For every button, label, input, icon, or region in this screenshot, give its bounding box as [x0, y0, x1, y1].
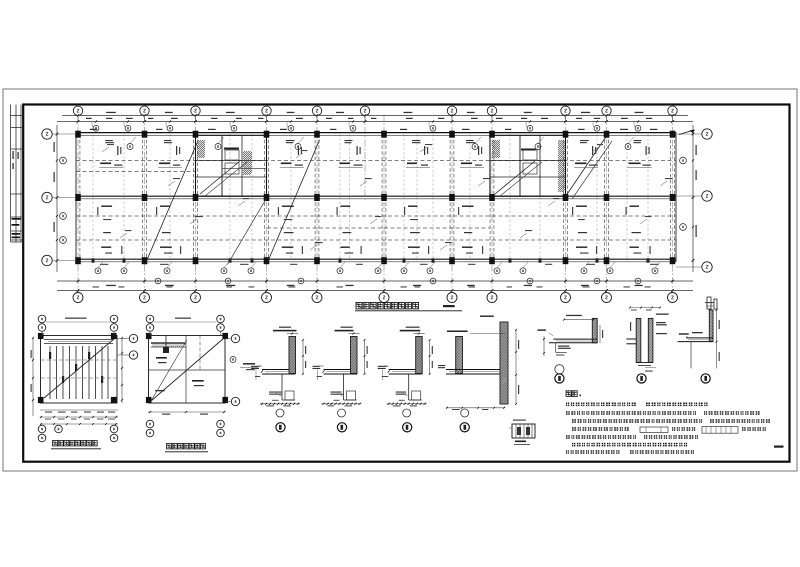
- section detail ref circles 341.5: [337, 409, 346, 432]
- north-east arrow mark: [679, 130, 695, 135]
- section detail step 280: [269, 374, 295, 400]
- left sub row bubbles: [60, 157, 67, 243]
- roof plan right bubbles: [226, 334, 258, 405]
- stair core A flight diagonals: [200, 161, 247, 196]
- tank plan diagonal: [44, 339, 114, 398]
- notes line 6: [572, 443, 687, 447]
- section detail wall 341.5: [335, 327, 360, 374]
- tank plan bottom bubbles: [38, 425, 118, 442]
- section detail 13 ref circle: [637, 374, 646, 383]
- row F top beam: [76, 132, 676, 134]
- signature strip left line: [10, 105, 12, 243]
- right row bubbles: [676, 129, 712, 272]
- stair diagonal right bay upper second: [572, 141, 612, 199]
- section detail slab 406.7: [378, 366, 423, 380]
- section detail dims 406.7: [387, 339, 433, 406]
- section detail 14 ref circle: [701, 374, 710, 383]
- sub-row dashed beams: [76, 161, 676, 241]
- section detail 15 ref circles: [555, 365, 564, 383]
- roof plan corner columns: [146, 333, 228, 403]
- section detail slab 280: [251, 366, 296, 380]
- level label 6.630 core B: [521, 149, 536, 151]
- notes line 1: [566, 402, 708, 406]
- main plan title: [355, 303, 462, 311]
- roof plan outline: [149, 336, 226, 404]
- top grid bubbles: [73, 106, 677, 121]
- under-beam dimension strings row D: [100, 264, 659, 265]
- row E middle beam: [76, 195, 676, 197]
- notes line 2: [566, 411, 760, 415]
- notes line 3: [572, 419, 770, 423]
- section detail step 341.5: [331, 374, 357, 400]
- roof plan partitions: [149, 336, 226, 404]
- section detail 13 channel: [626, 307, 668, 372]
- right dimension line: [692, 125, 694, 272]
- section detail 12 double wall: [438, 316, 519, 411]
- tank plan left dimension: [31, 337, 35, 416]
- tank plan top slab band: [44, 340, 113, 344]
- stair core B flight diagonals: [495, 161, 542, 196]
- annotations along row F above: [90, 129, 657, 130]
- right dimension figures: [696, 145, 697, 237]
- bottom grid bubbles: [73, 291, 678, 303]
- signature strip right line: [20, 105, 22, 243]
- roof plan second diagonal: [151, 340, 187, 401]
- roof plan labels: [155, 357, 204, 391]
- bottom dimension figures: [93, 285, 651, 288]
- beam annotations middle band: [97, 206, 641, 234]
- stair core A hatching: [197, 140, 252, 175]
- signature strip mid line: [15, 105, 17, 243]
- right sub row bubbles: [680, 157, 687, 230]
- stair long diagonal 3: [228, 199, 267, 265]
- column squares row E: [75, 194, 675, 201]
- plan side edges: [75, 133, 77, 262]
- sheet inner heavy border: [23, 105, 789, 462]
- left dimension figures: [54, 142, 55, 232]
- stair diagonal right bay upper: [566, 136, 607, 197]
- section detail wall 406.7: [400, 327, 425, 374]
- tank plan cross beams: [41, 360, 116, 378]
- signature strip cell text: [12, 151, 22, 238]
- column-line beam edges: [76, 134, 674, 261]
- section detail dims 280: [260, 339, 306, 406]
- bottom sub grid bubbles: [155, 278, 641, 284]
- stair long diagonal 1: [145, 143, 197, 265]
- secondary column dashed lines: [93, 134, 648, 261]
- tank plan corner columns: [38, 333, 117, 403]
- section detail slab 341.5: [313, 366, 358, 380]
- left row bubbles F E D: [42, 129, 76, 266]
- section detail 12 ref circles: [460, 409, 469, 432]
- scattered leader marks: [102, 144, 672, 250]
- stair core A partitions: [196, 135, 267, 196]
- bottom dimension line upper: [57, 280, 693, 282]
- beam annotations lower band: [101, 246, 651, 254]
- door symbol right of plan: [707, 297, 717, 309]
- top dimension line: [57, 121, 693, 123]
- roof plan bottom bubbles: [146, 420, 224, 437]
- roof plan top bubbles: [146, 315, 224, 335]
- section detail wall 280: [273, 327, 298, 374]
- roof plan main diagonal: [151, 338, 224, 401]
- top dimension figures: [86, 112, 652, 119]
- roof plan caption: [165, 444, 208, 452]
- stair core B hatching: [492, 140, 565, 192]
- notes heading: [566, 391, 581, 397]
- column squares row D: [75, 257, 675, 264]
- detail bubbles under row D: [95, 262, 660, 274]
- notes line 4 with inline sketches: [572, 427, 766, 434]
- main plan column grid centre-lines: [78, 115, 673, 293]
- detail bubbles under row F: [127, 137, 634, 150]
- tank plan right dimension and bubbles: [117, 334, 138, 403]
- tank plan internal ribs: [49, 346, 108, 399]
- tank plan caption: [51, 441, 101, 449]
- stair core B outline: [490, 135, 566, 196]
- sheet outer border: [3, 89, 797, 471]
- signature strip dividers: [11, 116, 24, 243]
- section detail ref circles 406.7: [403, 409, 412, 432]
- notes line 7: [566, 450, 694, 454]
- notes line 5: [566, 435, 698, 439]
- top sub grid bubbles: [92, 122, 641, 132]
- stair long diagonal 2: [267, 140, 320, 265]
- beam annotations upper band: [99, 140, 651, 168]
- bottom dimension line lower: [57, 290, 693, 292]
- top dimension overall line: [62, 114, 688, 116]
- section detail 14 slab: [678, 302, 720, 368]
- section detail step 406.7: [396, 374, 422, 400]
- sheet number: [774, 446, 784, 448]
- tank plan bottom dimensions: [40, 410, 118, 425]
- section detail 15 slab: [537, 315, 603, 356]
- left dimension line: [56, 125, 58, 272]
- column squares row F: [75, 131, 675, 138]
- level label 6.630 core A: [224, 148, 239, 150]
- tank plan top bubbles: [38, 315, 118, 335]
- small beam nodes row D: [92, 258, 650, 262]
- tank plan outline: [41, 336, 118, 404]
- section detail ref circles 280: [276, 409, 285, 432]
- roof plan bottom dimensions: [148, 411, 226, 415]
- row D bottom beam: [76, 258, 676, 260]
- section detail dims 341.5: [322, 339, 368, 406]
- stair core B partitions: [490, 135, 566, 196]
- small keyplan detail: [509, 420, 535, 445]
- stair core A outline: [196, 135, 267, 196]
- roof plan top-left wall: [151, 336, 186, 353]
